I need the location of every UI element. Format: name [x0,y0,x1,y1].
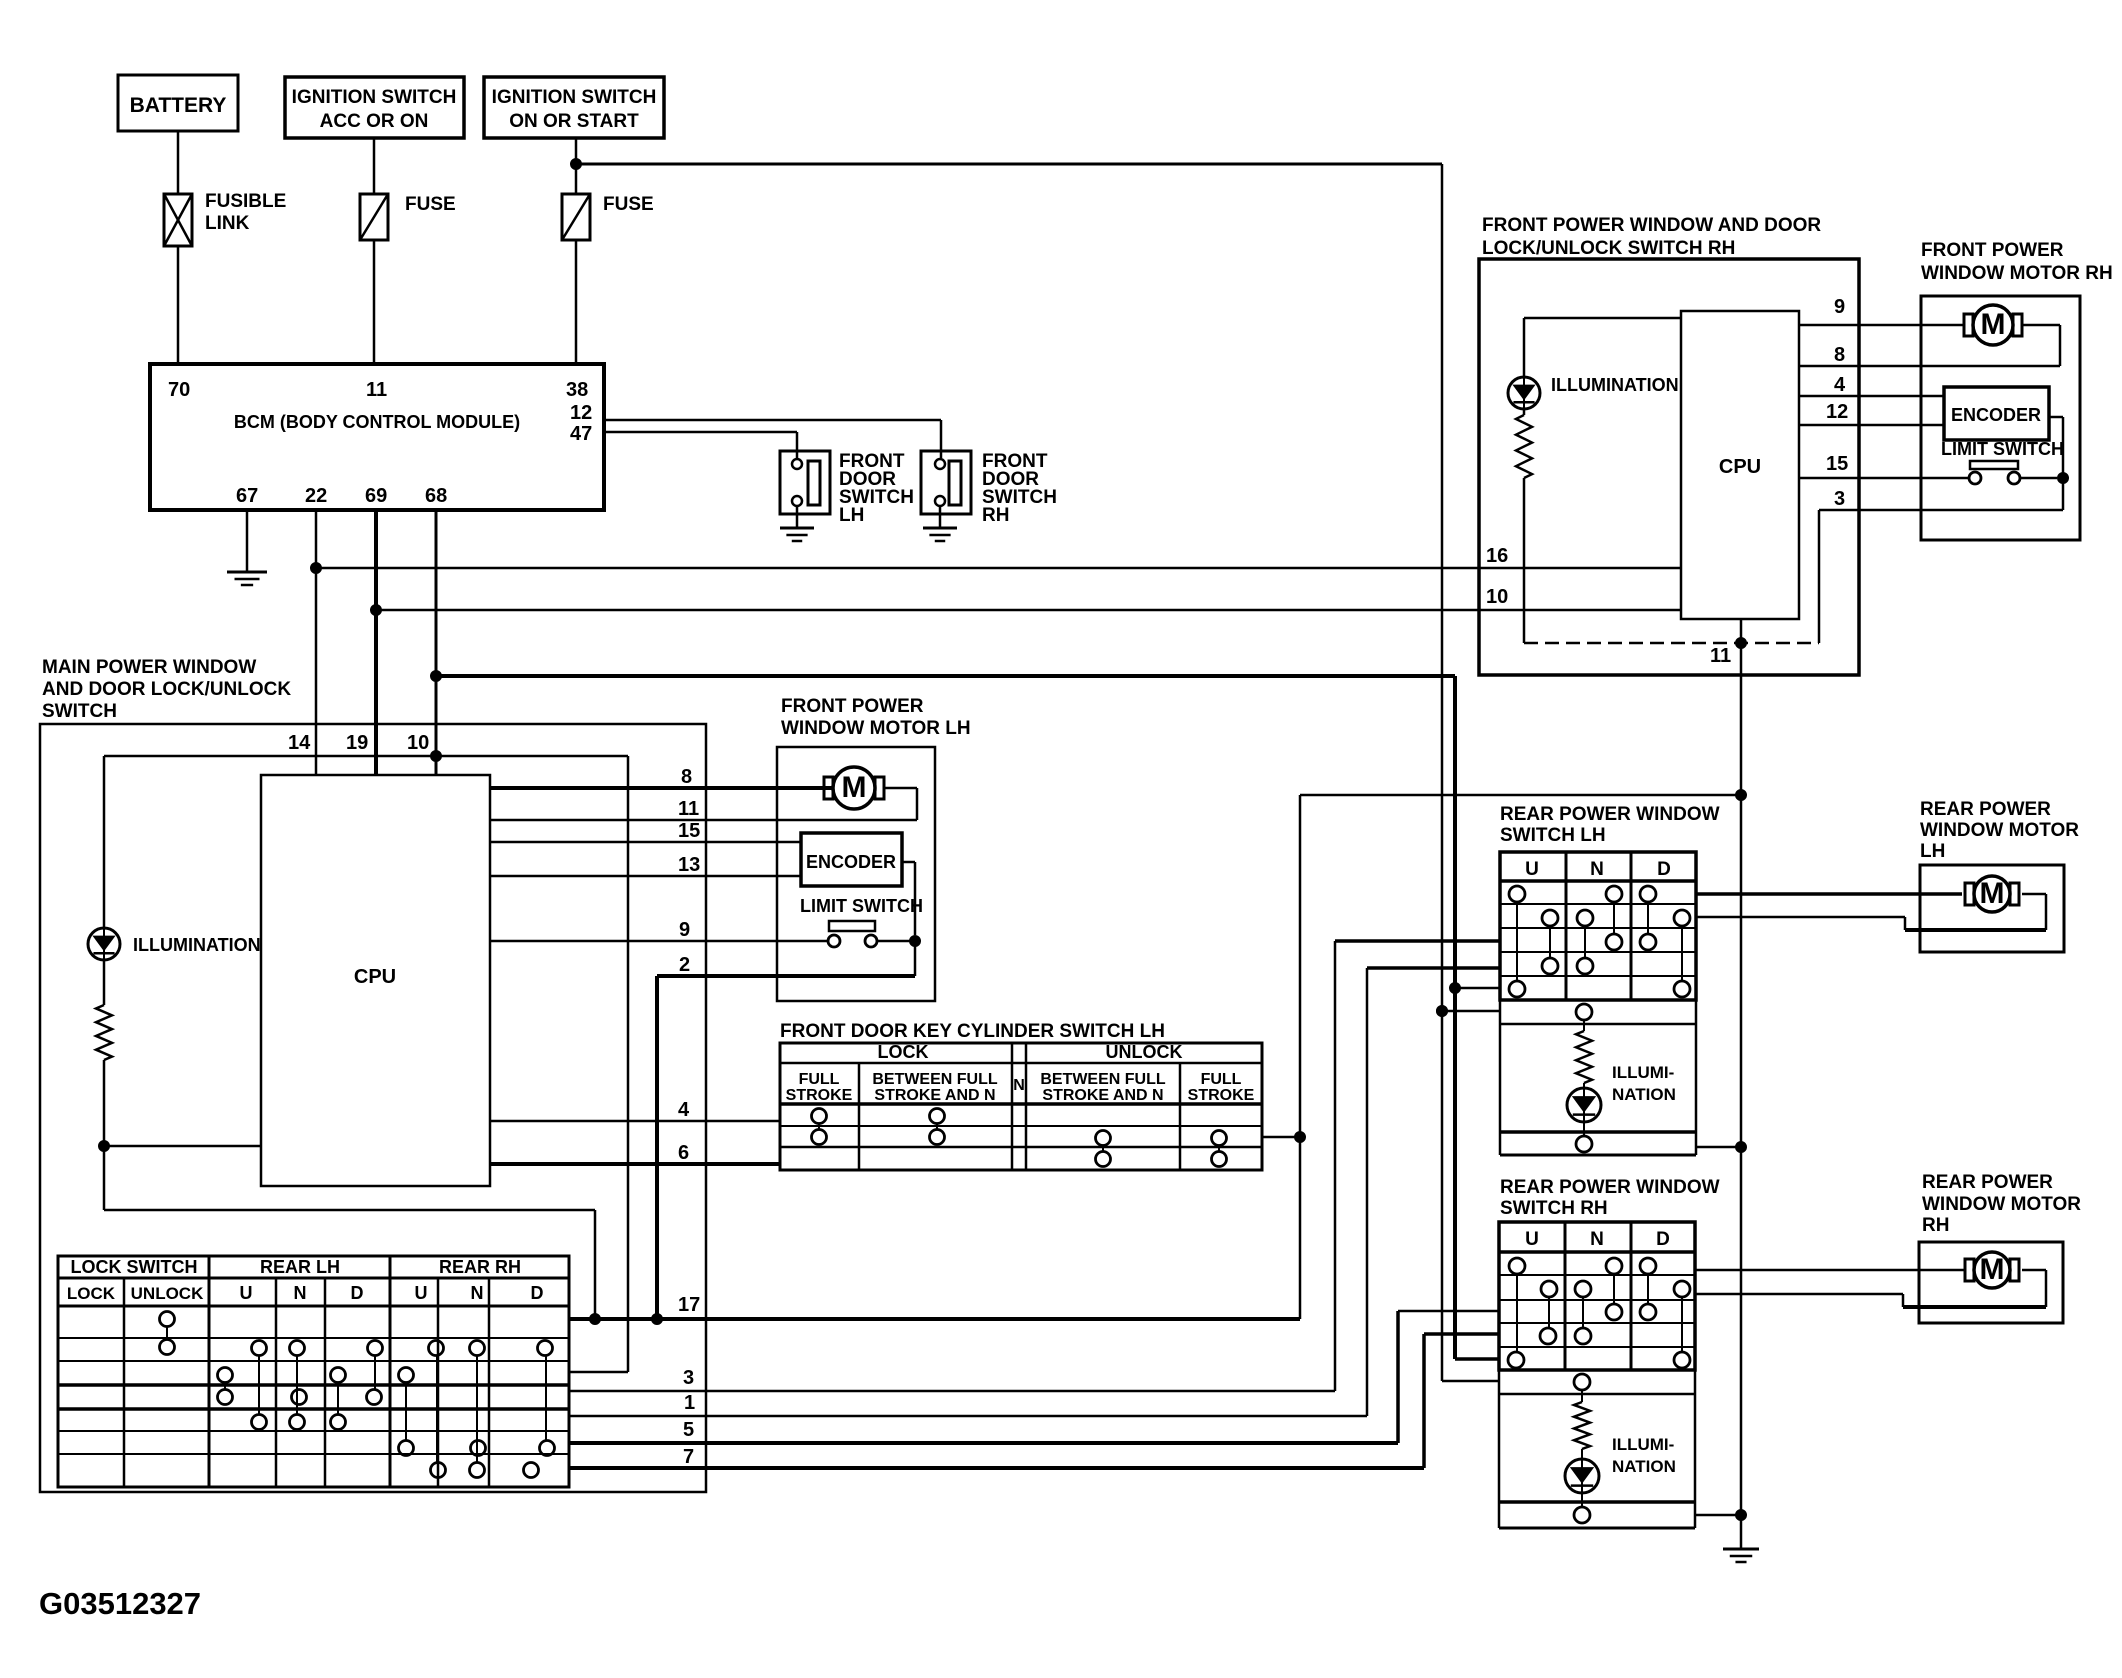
svg-text:3: 3 [683,1367,694,1389]
svg-text:8: 8 [681,766,692,788]
svg-text:2: 2 [679,954,690,976]
svg-text:M: M [1980,877,2005,910]
svg-text:9: 9 [679,919,690,941]
svg-text:LOCK: LOCK [878,1042,929,1062]
svg-text:REAR RH: REAR RH [439,1257,521,1277]
svg-text:11: 11 [366,379,387,401]
svg-text:N: N [1013,1077,1025,1094]
svg-text:14: 14 [288,732,311,754]
svg-text:15: 15 [678,820,700,842]
svg-text:68: 68 [425,485,447,507]
svg-text:RH: RH [1922,1215,1949,1236]
svg-text:FRONT POWER WINDOW AND DOOR: FRONT POWER WINDOW AND DOOR [1482,215,1821,236]
svg-text:M: M [1981,308,2006,341]
svg-text:STROKE AND N: STROKE AND N [874,1087,995,1104]
svg-text:STROKE: STROKE [786,1087,853,1104]
svg-text:D: D [531,1283,544,1303]
svg-text:MAIN POWER WINDOW: MAIN POWER WINDOW [42,657,256,678]
svg-text:19: 19 [346,732,368,754]
svg-text:38: 38 [566,379,588,401]
svg-text:LOCK/UNLOCK SWITCH RH: LOCK/UNLOCK SWITCH RH [1482,238,1735,259]
svg-text:FULL: FULL [1201,1071,1242,1088]
svg-text:U: U [415,1283,428,1303]
svg-text:N: N [294,1283,307,1303]
svg-text:FRONT DOOR KEY CYLINDER SWITCH: FRONT DOOR KEY CYLINDER SWITCH LH [780,1021,1165,1042]
svg-text:69: 69 [365,485,387,507]
svg-text:U: U [240,1283,253,1303]
svg-text:M: M [1980,1253,2005,1286]
svg-text:CPU: CPU [354,966,396,988]
svg-text:15: 15 [1826,453,1848,475]
svg-text:RH: RH [982,505,1009,526]
svg-text:ILLUMI-: ILLUMI- [1612,1435,1674,1454]
svg-text:LOCK: LOCK [67,1284,116,1303]
svg-text:70: 70 [168,379,190,401]
svg-text:FRONT POWER: FRONT POWER [781,696,924,717]
svg-text:NATION: NATION [1612,1085,1676,1104]
svg-text:NATION: NATION [1612,1457,1676,1476]
svg-text:WINDOW MOTOR RH: WINDOW MOTOR RH [1921,263,2113,284]
svg-text:G03512327: G03512327 [39,1586,201,1621]
svg-text:REAR POWER: REAR POWER [1920,799,2051,820]
svg-text:WINDOW MOTOR: WINDOW MOTOR [1922,1194,2081,1215]
svg-text:N: N [1590,1229,1604,1250]
svg-text:SWITCH: SWITCH [42,701,117,722]
svg-text:12: 12 [1826,401,1848,423]
svg-text:FUSIBLE: FUSIBLE [205,191,286,212]
svg-text:BCM (BODY CONTROL MODULE): BCM (BODY CONTROL MODULE) [234,412,520,432]
svg-text:11: 11 [1710,645,1731,667]
svg-text:ACC OR ON: ACC OR ON [320,111,429,132]
svg-text:N: N [471,1283,484,1303]
svg-text:U: U [1525,1229,1539,1250]
svg-text:WINDOW MOTOR LH: WINDOW MOTOR LH [781,718,971,739]
svg-text:3: 3 [1834,488,1845,510]
svg-text:67: 67 [236,485,258,507]
svg-text:11: 11 [678,798,699,820]
svg-text:ILLUMINATION: ILLUMINATION [1551,375,1679,395]
svg-text:STROKE: STROKE [1188,1087,1255,1104]
svg-text:M: M [842,771,867,804]
svg-text:LH: LH [1920,841,1945,862]
svg-text:D: D [351,1283,364,1303]
svg-text:FRONT POWER: FRONT POWER [1921,240,2064,261]
svg-text:D: D [1657,859,1671,880]
svg-text:REAR POWER WINDOW: REAR POWER WINDOW [1500,1177,1720,1198]
svg-text:13: 13 [678,854,700,876]
svg-text:ENCODER: ENCODER [806,852,896,872]
svg-text:REAR POWER WINDOW: REAR POWER WINDOW [1500,804,1720,825]
svg-text:LIMIT SWITCH: LIMIT SWITCH [800,896,923,916]
svg-text:BETWEEN FULL: BETWEEN FULL [872,1071,998,1088]
svg-text:CPU: CPU [1719,456,1761,478]
svg-text:IGNITION SWITCH: IGNITION SWITCH [492,87,657,108]
svg-text:REAR POWER: REAR POWER [1922,1172,2053,1193]
svg-text:U: U [1525,859,1539,880]
svg-text:STROKE AND N: STROKE AND N [1042,1087,1163,1104]
svg-text:16: 16 [1486,545,1508,567]
svg-text:6: 6 [678,1142,689,1164]
svg-text:10: 10 [1486,586,1508,608]
svg-text:4: 4 [1834,374,1846,396]
svg-text:D: D [1656,1229,1670,1250]
svg-text:17: 17 [678,1294,700,1316]
svg-text:5: 5 [683,1419,694,1441]
svg-text:LIMIT SWITCH: LIMIT SWITCH [1941,439,2064,459]
svg-text:8: 8 [1834,344,1845,366]
svg-text:ENCODER: ENCODER [1951,405,2041,425]
svg-text:LH: LH [839,505,864,526]
svg-text:ON OR START: ON OR START [509,111,639,132]
svg-text:SWITCH RH: SWITCH RH [1500,1198,1608,1219]
svg-text:SWITCH LH: SWITCH LH [1500,825,1606,846]
svg-text:LOCK SWITCH: LOCK SWITCH [71,1257,198,1277]
svg-text:FULL: FULL [799,1071,840,1088]
svg-text:REAR LH: REAR LH [260,1257,340,1277]
svg-text:FUSE: FUSE [405,194,456,215]
svg-text:1: 1 [684,1392,695,1414]
svg-text:12: 12 [570,402,592,424]
svg-text:9: 9 [1834,296,1845,318]
svg-text:AND DOOR LOCK/UNLOCK: AND DOOR LOCK/UNLOCK [42,679,291,700]
svg-text:22: 22 [305,485,327,507]
svg-text:10: 10 [407,732,429,754]
svg-text:ILLUMI-: ILLUMI- [1612,1063,1674,1082]
svg-text:BETWEEN FULL: BETWEEN FULL [1040,1071,1166,1088]
svg-text:UNLOCK: UNLOCK [1106,1042,1183,1062]
svg-text:UNLOCK: UNLOCK [131,1284,204,1303]
svg-text:IGNITION SWITCH: IGNITION SWITCH [292,87,457,108]
svg-text:7: 7 [683,1446,694,1468]
svg-text:WINDOW MOTOR: WINDOW MOTOR [1920,820,2079,841]
svg-text:FUSE: FUSE [603,194,654,215]
svg-text:BATTERY: BATTERY [130,94,227,117]
svg-text:4: 4 [678,1099,690,1121]
svg-text:LINK: LINK [205,213,250,234]
svg-text:47: 47 [570,423,592,445]
svg-text:ILLUMINATION: ILLUMINATION [133,935,261,955]
svg-text:N: N [1590,859,1604,880]
